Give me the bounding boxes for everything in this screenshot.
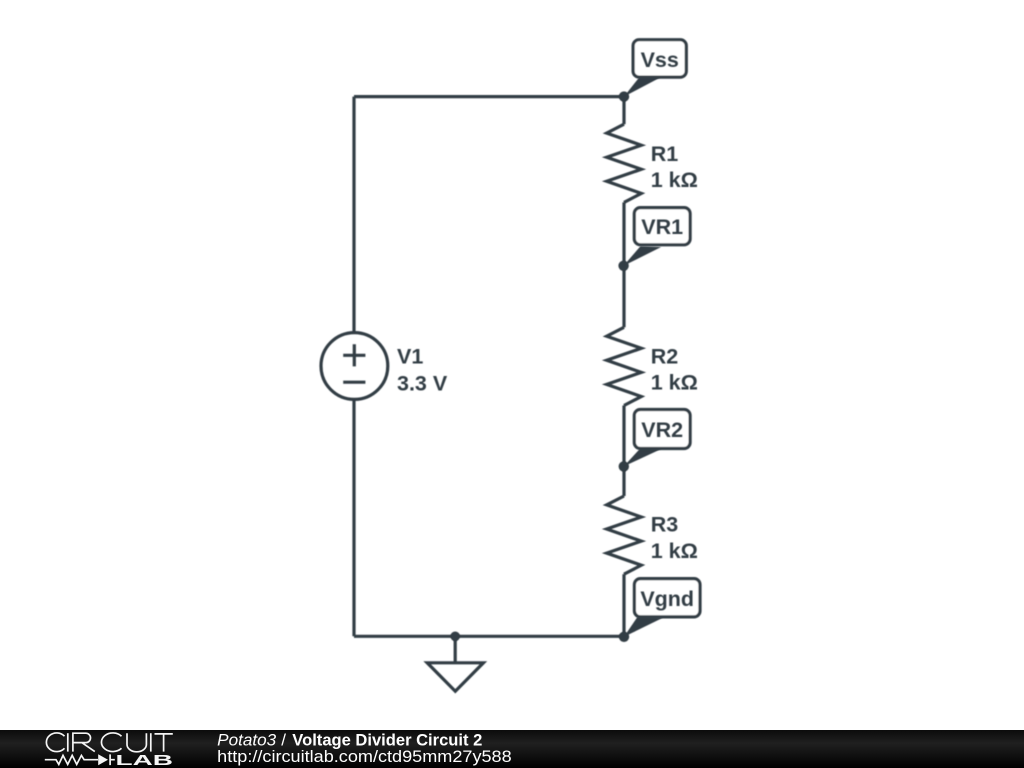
node dot VR1	[618, 261, 628, 271]
flag balloon VR2	[634, 410, 690, 449]
V1 minus sign	[343, 381, 365, 384]
resistor R1 zigzag	[607, 124, 642, 202]
resistor R2 zigzag	[607, 327, 642, 405]
svg-text:1 kΩ: 1 kΩ	[651, 371, 698, 395]
svg-text:1 kΩ: 1 kΩ	[651, 539, 698, 563]
flag tail VR1	[624, 246, 662, 266]
wire bottom horizontal	[354, 635, 624, 638]
flag balloon Vgnd	[634, 579, 700, 617]
wire right top (Vss to R1)	[622, 97, 625, 125]
node dot Vss	[619, 91, 629, 101]
svg-text:R3: R3	[651, 513, 679, 537]
svg-text:VR2: VR2	[641, 418, 683, 442]
resistor R3 zigzag	[607, 496, 642, 574]
ground symbol GND	[427, 636, 483, 691]
V1 plus sign	[343, 344, 365, 366]
logo resistor-diode symbol	[45, 754, 115, 765]
wire node VR2 to R3	[622, 466, 625, 496]
wire R3 to node Vgnd	[622, 574, 625, 636]
svg-text:LAB: LAB	[116, 753, 174, 768]
svg-text:Vgnd: Vgnd	[640, 587, 694, 611]
voltage source V1 circle	[321, 333, 388, 400]
node dot VR2	[619, 461, 629, 471]
node dot Vgnd	[619, 632, 629, 642]
svg-text:3.3 V: 3.3 V	[397, 372, 448, 396]
wire top horizontal	[354, 95, 624, 98]
flag tail Vss	[624, 77, 661, 96]
flag balloon Vss	[633, 40, 686, 77]
flag tail Vgnd	[624, 617, 663, 637]
svg-text:R1: R1	[651, 142, 679, 166]
svg-text:V1: V1	[397, 345, 423, 369]
svg-text:Vss: Vss	[641, 48, 679, 72]
svg-text:http://circuitlab.com/ctd95mm2: http://circuitlab.com/ctd95mm27y588	[217, 747, 512, 766]
wire node VR1 to R2	[622, 266, 625, 328]
flag tail VR2	[624, 448, 661, 466]
wire R1 to node VR1	[622, 202, 625, 265]
wire left vertical (V1 top lead)	[352, 97, 355, 333]
svg-text:VR1: VR1	[641, 215, 683, 239]
svg-text:1 kΩ: 1 kΩ	[651, 168, 698, 192]
wire V1 bottom lead	[352, 399, 355, 636]
logo CIRCUIT letters	[46, 733, 172, 752]
node dot ground junction	[450, 632, 460, 642]
logo diode triangle	[98, 754, 108, 765]
svg-text:R2: R2	[651, 345, 679, 369]
wire R2 to node VR2	[622, 406, 625, 467]
flag balloon VR1	[634, 208, 690, 245]
